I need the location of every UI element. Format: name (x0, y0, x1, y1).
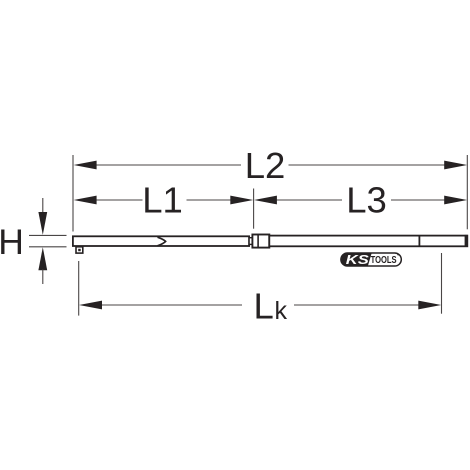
svg-text:TOOLS: TOOLS (371, 255, 397, 266)
svg-text:L3: L3 (346, 180, 387, 221)
KS TOOLS logo pill (341, 253, 401, 266)
svg-text:k: k (275, 297, 288, 325)
logo registered mark (397, 254, 399, 256)
dimension line L3 (276, 199, 342, 201)
handle end cap (465, 235, 468, 247)
svg-text:L2: L2 (245, 145, 286, 186)
neck between tube and collar (249, 238, 252, 245)
arrowhead Lk right (418, 301, 441, 310)
H extension line bottom (y=246.8) (29, 246, 67, 248)
svg-text:KS: KS (346, 253, 370, 267)
arrowhead L3 left (at middle boundary) (254, 196, 277, 205)
H lower arrowhead (pointing up) (38, 247, 47, 270)
arrowhead Lk left (79, 301, 102, 310)
H lower arrow line (42, 270, 44, 285)
svg-text:L: L (254, 286, 274, 327)
extension line Lk left (x=78.7) (78, 261, 80, 316)
H extension line top (y=235.4) (29, 234, 67, 236)
arrowhead L3 right (444, 196, 467, 205)
H upper arrowhead (pointing down) (38, 212, 47, 235)
wrench right bar section (tube + handle) (269, 236, 467, 247)
svg-text:H: H (0, 222, 24, 262)
wrench left bar section (head + tube) (73, 236, 249, 246)
extension line middle L1/L3 boundary (x=253.6) (253, 189, 255, 229)
drive square center dot (78, 249, 81, 251)
drive square below head (76, 247, 83, 253)
extension line left (x=73) (72, 155, 74, 232)
logo left black field (341, 253, 371, 267)
extension line Lk right (x=441.5) (441, 253, 443, 314)
svg-text:L1: L1 (142, 180, 183, 221)
dimension line L1 (95, 199, 143, 201)
chevron mark inside tube (158, 237, 166, 246)
dimension line Lk (100, 304, 242, 306)
arrowhead L1 left (74, 196, 97, 205)
arrowhead L2 left (74, 161, 97, 170)
arrowhead L1 right (at middle boundary) (230, 196, 253, 205)
collar divider (257, 235, 259, 248)
extension line right (x=467.3) (466, 155, 468, 229)
adjustment collar (252, 235, 269, 248)
arrowhead L2 right (444, 161, 467, 170)
dimension line L2 (95, 164, 241, 166)
handle divider (418, 236, 420, 247)
H upper arrow line (42, 198, 44, 213)
